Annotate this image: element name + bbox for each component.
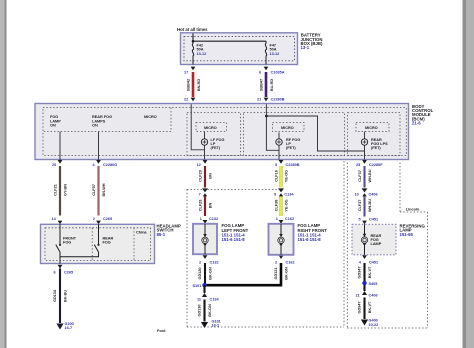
wire: rear fog lamps on sense drop bbox=[98, 132, 100, 161]
switch rear fog bbox=[94, 224, 99, 252]
svg-text:WH-BU: WH-BU bbox=[368, 199, 372, 212]
svg-text:(FET): (FET) bbox=[371, 146, 381, 150]
svg-text:BK-GN: BK-GN bbox=[208, 304, 212, 317]
BJB label bbox=[301, 33, 324, 51]
svg-text:S101: S101 bbox=[193, 284, 202, 288]
svg-text:151-65: 151-65 bbox=[400, 232, 414, 237]
inline connector pin 10 C406 bbox=[355, 188, 378, 196]
svg-text:BK-VT: BK-VT bbox=[368, 301, 372, 313]
connector arrow below switch pin 6 C265 bbox=[58, 265, 63, 269]
connector arrow below reversing lamp pin 4 C451 bbox=[362, 255, 367, 259]
switch front fog bbox=[56, 224, 61, 252]
svg-text:Hot at all times: Hot at all times bbox=[177, 27, 208, 32]
svg-text:3: 3 bbox=[275, 163, 277, 167]
fog lamp left front label bbox=[222, 223, 249, 242]
svg-text:Lincoln: Lincoln bbox=[406, 207, 420, 211]
pin 6 C1035A bbox=[259, 71, 285, 75]
svg-text:2: 2 bbox=[275, 260, 277, 264]
wire: rear FET stem bbox=[364, 132, 366, 160]
svg-text:CLF38: CLF38 bbox=[274, 200, 278, 212]
svg-text:C451: C451 bbox=[369, 218, 378, 222]
svg-text:25: 25 bbox=[356, 163, 360, 167]
page left edge band bbox=[0, 0, 7, 348]
pin 4 C2280G bbox=[93, 163, 118, 167]
wire GD121 BK-GN right lamp ground labels bbox=[274, 267, 288, 280]
connector arrow into headlamp switch pin 2 C265 bbox=[96, 221, 101, 225]
svg-text:C162: C162 bbox=[286, 260, 295, 264]
ground G200 bbox=[56, 322, 73, 330]
wire: rear supply rail bbox=[266, 116, 364, 151]
svg-text:(FET): (FET) bbox=[211, 146, 221, 150]
FET Q-RF bbox=[276, 138, 301, 150]
svg-text:BU-RD: BU-RD bbox=[270, 79, 274, 91]
svg-text:C2280B: C2280B bbox=[286, 163, 300, 167]
connector arrow below RF lamp pin 2 C162 bbox=[279, 255, 284, 259]
connector arrow below LF lamp pin 2 C132 bbox=[203, 255, 208, 259]
svg-text:13-1: 13-1 bbox=[301, 45, 310, 50]
svg-text:SBB47: SBB47 bbox=[260, 79, 264, 91]
splice S405 bbox=[362, 281, 377, 286]
svg-text:1: 1 bbox=[276, 217, 278, 221]
svg-text:13-12: 13-12 bbox=[197, 52, 207, 56]
connector arrow into RF fog lamp pin 1 C162 bbox=[279, 220, 284, 224]
svg-text:C2280G: C2280G bbox=[103, 163, 117, 167]
headlamp switch label bbox=[157, 223, 181, 236]
svg-text:BK-GN: BK-GN bbox=[285, 267, 289, 280]
svg-text:MICRO: MICRO bbox=[204, 126, 217, 130]
svg-text:C134: C134 bbox=[210, 298, 220, 302]
svg-text:GD347: GD347 bbox=[358, 301, 362, 313]
micro box U-REAR bbox=[356, 123, 389, 132]
wire CLF29 BN upper bbox=[198, 166, 212, 188]
RF channel dashed box bbox=[244, 113, 345, 156]
connector arrow below BJB pin 6 C1035A bbox=[264, 67, 269, 71]
svg-text:MICRO: MICRO bbox=[365, 126, 378, 130]
pin 3 C2280B bbox=[275, 163, 300, 167]
rear channel dashed box bbox=[348, 113, 401, 156]
micro box U-RF bbox=[273, 123, 305, 132]
svg-text:YE-OG: YE-OG bbox=[285, 170, 289, 182]
wire: fog lamp on sense drop bbox=[59, 132, 61, 161]
pin 4 C451 bbox=[359, 260, 378, 264]
connector arrow below BJB pin 17 bbox=[191, 67, 196, 71]
svg-text:151-6 151-8: 151-6 151-8 bbox=[298, 237, 322, 242]
fuse F42 bbox=[192, 44, 206, 65]
wire CLF37 WH-BU lower bbox=[358, 197, 372, 217]
connector arrow BCM pin 20 bbox=[58, 160, 63, 164]
pin 1 C132 bbox=[200, 217, 218, 221]
svg-text:10-22: 10-22 bbox=[369, 323, 379, 327]
pin 6 C265 bbox=[54, 271, 74, 275]
wire below S101 bbox=[203, 285, 205, 293]
svg-text:BK-VT: BK-VT bbox=[368, 266, 372, 278]
wire GD347 BK-VT lower bbox=[358, 298, 372, 320]
connector arrow into LF fog lamp pin 1 C132 bbox=[203, 220, 208, 224]
svg-text:85-1: 85-1 bbox=[157, 232, 166, 237]
micro box U-LF bbox=[196, 123, 227, 132]
svg-text:SBB42: SBB42 bbox=[187, 79, 191, 91]
wire CLF16 YE-OG lower bbox=[274, 197, 288, 217]
svg-text:CLF21: CLF21 bbox=[53, 184, 57, 196]
page right edge band bbox=[463, 0, 474, 348]
svg-text:CLF29: CLF29 bbox=[198, 200, 202, 212]
svg-text:CLF57: CLF57 bbox=[92, 184, 96, 196]
body control module BCM box bbox=[35, 104, 409, 160]
ground G101 bbox=[201, 319, 221, 328]
connector arrow BCM pin 3 C2280B bbox=[279, 160, 284, 164]
svg-text:2: 2 bbox=[93, 217, 95, 221]
svg-text:YE-OG: YE-OG bbox=[285, 199, 289, 211]
svg-text:BN: BN bbox=[209, 203, 213, 209]
splice S101 bbox=[193, 283, 207, 288]
svg-text:16-1: 16-1 bbox=[212, 324, 220, 328]
svg-text:MICRO: MICRO bbox=[144, 115, 157, 119]
BCM input logic sub-box bbox=[43, 108, 171, 132]
FET Q-REAR bbox=[361, 138, 388, 150]
svg-text:MICRO: MICRO bbox=[281, 126, 294, 130]
svg-text:GD120: GD120 bbox=[198, 267, 202, 279]
svg-text:BK-BU: BK-BU bbox=[64, 290, 68, 302]
wire CLF16 YE-OG upper bbox=[274, 166, 288, 188]
svg-text:CLF37: CLF37 bbox=[358, 170, 362, 182]
Lincoln group dashed boundary bbox=[347, 163, 427, 328]
svg-text:11: 11 bbox=[197, 298, 201, 302]
reversing lamp box bbox=[352, 224, 396, 255]
svg-text:FOG: FOG bbox=[63, 241, 71, 245]
svg-text:BN-RD: BN-RD bbox=[197, 79, 201, 91]
battery junction box BJB bbox=[181, 33, 298, 65]
pin 25 C2280F bbox=[356, 163, 383, 167]
inline connector pin 21 C406 bbox=[356, 291, 378, 298]
pin 2 C162 bbox=[275, 260, 295, 264]
svg-text:22: 22 bbox=[184, 97, 188, 101]
svg-text:BK-GN: BK-GN bbox=[209, 267, 213, 280]
svg-text:C2280B: C2280B bbox=[271, 97, 285, 101]
pin 2 C132 bbox=[199, 260, 219, 264]
FET Q-LF bbox=[201, 138, 224, 150]
svg-text:C162: C162 bbox=[285, 217, 294, 221]
wire SBB47 BU-RD (violet-navy) bbox=[260, 72, 274, 97]
svg-text:BN: BN bbox=[209, 173, 213, 179]
wire SBB42 BN-RD (red) bbox=[187, 72, 201, 97]
svg-text:C406: C406 bbox=[369, 294, 378, 298]
svg-text:13-12: 13-12 bbox=[270, 52, 280, 56]
BCM label bbox=[412, 104, 434, 126]
wire GD130 BK-GN to ground bbox=[198, 300, 212, 322]
fog lamp left front box bbox=[193, 224, 217, 254]
svg-text:CLF29: CLF29 bbox=[198, 170, 202, 182]
svg-text:5: 5 bbox=[359, 218, 361, 222]
svg-text:10: 10 bbox=[355, 192, 359, 196]
svg-text:2: 2 bbox=[199, 260, 201, 264]
svg-text:GD130: GD130 bbox=[198, 304, 202, 316]
wire GD347 BK-VT upper bbox=[358, 263, 372, 282]
wire: LF FET stem bbox=[204, 132, 206, 160]
svg-text:GD121: GD121 bbox=[274, 267, 278, 279]
svg-text:(FET): (FET) bbox=[286, 146, 296, 150]
connector arrow BCM pin 25 C2280F bbox=[362, 160, 367, 164]
junction dot on RF feed bbox=[265, 115, 268, 118]
inline connector pin 9 C134 bbox=[274, 188, 294, 196]
svg-text:7: 7 bbox=[199, 193, 201, 197]
Ford group dashed boundary bbox=[157, 161, 344, 333]
svg-text:WH-BU: WH-BU bbox=[368, 169, 372, 182]
pin 5 C451 bbox=[359, 218, 379, 222]
svg-text:LAMP: LAMP bbox=[371, 242, 382, 246]
svg-text:12: 12 bbox=[197, 163, 201, 167]
svg-text:C451: C451 bbox=[369, 260, 378, 264]
inline connector pin 11 C134 bbox=[197, 293, 219, 302]
headlamp switch box bbox=[41, 224, 155, 263]
pin 2 C265 bbox=[93, 217, 112, 221]
ground G400 bbox=[361, 319, 378, 327]
svg-text:ON: ON bbox=[50, 123, 56, 127]
svg-text:6: 6 bbox=[54, 271, 56, 275]
reversing lamp label bbox=[400, 223, 426, 236]
svg-text:C406: C406 bbox=[369, 192, 378, 196]
svg-text:GD134: GD134 bbox=[53, 289, 57, 302]
svg-text:C132: C132 bbox=[209, 217, 218, 221]
svg-text:BN-WH: BN-WH bbox=[102, 183, 106, 196]
svg-text:C132: C132 bbox=[210, 260, 219, 264]
wire: RF FET stem bbox=[278, 133, 280, 160]
svg-text:CLF37: CLF37 bbox=[358, 200, 362, 212]
pin 21 C2280B bbox=[257, 97, 285, 101]
svg-text:1: 1 bbox=[200, 217, 202, 221]
connector arrow BCM pin 4 C2280G bbox=[96, 160, 101, 164]
svg-text:6: 6 bbox=[259, 71, 261, 75]
connector arrow BCM pin 12 bbox=[203, 160, 208, 164]
svg-text:CLF16: CLF16 bbox=[274, 170, 278, 182]
svg-text:C265: C265 bbox=[103, 217, 112, 221]
svg-text:GY-BN: GY-BN bbox=[64, 184, 68, 196]
connector arrow into headlamp switch pin 14 bbox=[58, 221, 63, 225]
LF channel dashed box bbox=[187, 113, 241, 156]
svg-text:GD347: GD347 bbox=[358, 266, 362, 278]
svg-text:21: 21 bbox=[356, 294, 360, 298]
svg-text:21-6: 21-6 bbox=[412, 121, 421, 126]
wire GD120 BK-GN left lamp ground bbox=[198, 263, 212, 284]
wire CLF37 WH-BU upper bbox=[358, 166, 372, 188]
svg-text:21: 21 bbox=[257, 97, 261, 101]
svg-text:151-6 151-8: 151-6 151-8 bbox=[222, 237, 246, 242]
svg-text:ON: ON bbox=[92, 123, 98, 127]
svg-text:China: China bbox=[136, 231, 147, 235]
svg-text:Ford: Ford bbox=[157, 329, 166, 333]
wire: LF supply feed inside BCM bbox=[191, 104, 204, 150]
wire CLF21 GY-BN bbox=[53, 166, 67, 216]
pin 1 C162 bbox=[276, 217, 294, 221]
wire: switch common bus bbox=[60, 253, 99, 264]
svg-text:C1035A: C1035A bbox=[271, 71, 285, 75]
inline connector pin 7 bbox=[199, 188, 208, 196]
wire CLF29 BN lower bbox=[198, 197, 212, 217]
fog lamp right front label bbox=[298, 223, 328, 242]
svg-text:16-7: 16-7 bbox=[65, 326, 73, 330]
svg-text:FOG: FOG bbox=[103, 241, 111, 245]
wire: RF supply feed inside BCM bbox=[266, 104, 279, 150]
svg-text:C134: C134 bbox=[284, 192, 294, 196]
connector arrow into BCM pin 21 C2280B bbox=[264, 98, 269, 102]
connector arrow into BCM pin 22 bbox=[191, 98, 196, 102]
wire CLF57 BN-WH bbox=[92, 166, 106, 216]
wire below S405 bbox=[363, 283, 365, 291]
svg-text:S405: S405 bbox=[369, 282, 378, 286]
wire: BJB internal feed bus bbox=[192, 34, 266, 44]
svg-text:9: 9 bbox=[274, 192, 276, 196]
svg-text:C2280F: C2280F bbox=[369, 163, 383, 167]
fuse F47 bbox=[265, 44, 279, 65]
svg-text:20: 20 bbox=[52, 163, 56, 167]
wire GD134 BK-BU bbox=[53, 269, 67, 324]
wire: ground bus to right lamp bbox=[205, 263, 282, 285]
svg-text:17: 17 bbox=[184, 71, 188, 75]
svg-text:C265: C265 bbox=[64, 271, 73, 275]
connector arrow into reversing lamp pin 5 C451 bbox=[362, 221, 367, 225]
fog lamp right front box bbox=[269, 224, 294, 255]
